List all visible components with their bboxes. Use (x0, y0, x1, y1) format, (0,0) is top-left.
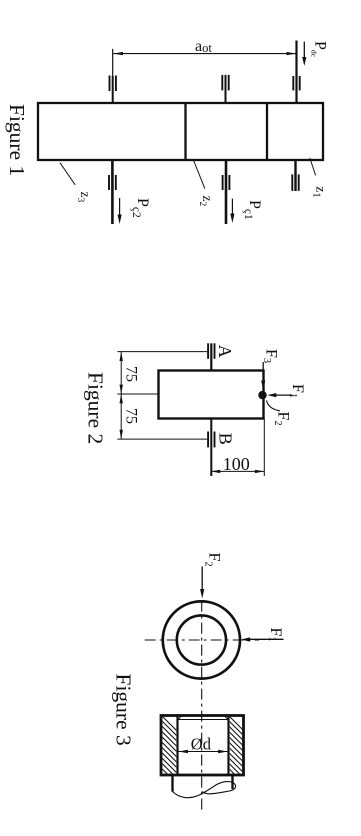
bore chamfer right (225, 716, 228, 720)
dimension aot line (114, 52, 297, 55)
bore right edge (227, 716, 229, 776)
dimension vertical line 75/75 (120, 352, 122, 440)
Pdc input force arrow (302, 42, 306, 66)
shaft III top stub (225, 75, 227, 103)
bearing A bars (207, 343, 209, 359)
svg-text:A: A (215, 345, 235, 358)
hatch right wall (222, 709, 252, 797)
divider wall 1 (184, 103, 186, 160)
extension line A level (118, 351, 208, 353)
housing rect (38, 103, 323, 160)
bore top line (178, 719, 229, 721)
gear z1-bottom bars (291, 174, 293, 191)
divider wall 2 (266, 103, 268, 160)
F2 arrow (fig3) (201, 567, 203, 593)
Pc1 force arrow (230, 199, 234, 223)
shaft I (input) line (295, 41, 297, 104)
load point dot (258, 391, 266, 399)
svg-text:100: 100 (223, 454, 250, 474)
svg-text:B: B (215, 433, 235, 445)
housing box (38, 103, 323, 160)
F1 arrow (fig3) (246, 638, 284, 640)
bushing outer rect (161, 716, 244, 776)
svg-text:Figure 3: Figure 3 (112, 674, 136, 746)
svg-text:aot: aot (195, 38, 212, 55)
vertical centerline (201, 601, 203, 810)
hatch left wall (155, 709, 185, 797)
leader z3 (60, 163, 75, 185)
shaft I bottom stub (294, 160, 296, 191)
caption Figure 1 (5, 104, 29, 176)
extension line mid level (117, 393, 158, 395)
bearing B bars (207, 432, 209, 448)
gear z2-bottom bars (108, 175, 110, 190)
shaft III bottom (225, 160, 228, 224)
extension right of 100 (263, 419, 265, 477)
svg-text:Ød: Ød (191, 734, 212, 753)
gear z2-top bars (109, 76, 111, 92)
dimension 100 line (211, 470, 264, 472)
F3 arrow (262, 362, 264, 384)
F1 arrow (272, 394, 292, 396)
dim Od line (179, 751, 228, 753)
leader z1 (310, 158, 316, 176)
horizontal centerline (145, 639, 259, 641)
svg-text:Figure 1: Figure 1 (5, 104, 29, 176)
svg-text:Figure 2: Figure 2 (84, 372, 108, 444)
svg-text:75: 75 (122, 408, 139, 424)
support B shaft (210, 419, 212, 477)
gear z1-top bars (292, 76, 294, 90)
bore left edge (176, 716, 178, 776)
inner circle (177, 615, 226, 664)
shaft II bottom (111, 160, 114, 224)
beam rectangle (159, 371, 264, 419)
shaft below left line (171, 775, 173, 792)
gear z3-bottom bars (222, 175, 224, 190)
leader z2 (193, 159, 205, 189)
F2 leader curve (267, 401, 281, 411)
extension line B level (117, 438, 207, 440)
svg-text:75: 75 (122, 366, 139, 382)
support A shaft (210, 343, 212, 370)
Pc2 force arrow (118, 198, 122, 224)
outer circle (163, 601, 240, 678)
shaft II top line (112, 49, 114, 76)
gear z3-top bars (221, 75, 223, 91)
break curve (172, 782, 235, 798)
bore chamfer left (178, 716, 181, 720)
shaft below right line (231, 775, 233, 789)
